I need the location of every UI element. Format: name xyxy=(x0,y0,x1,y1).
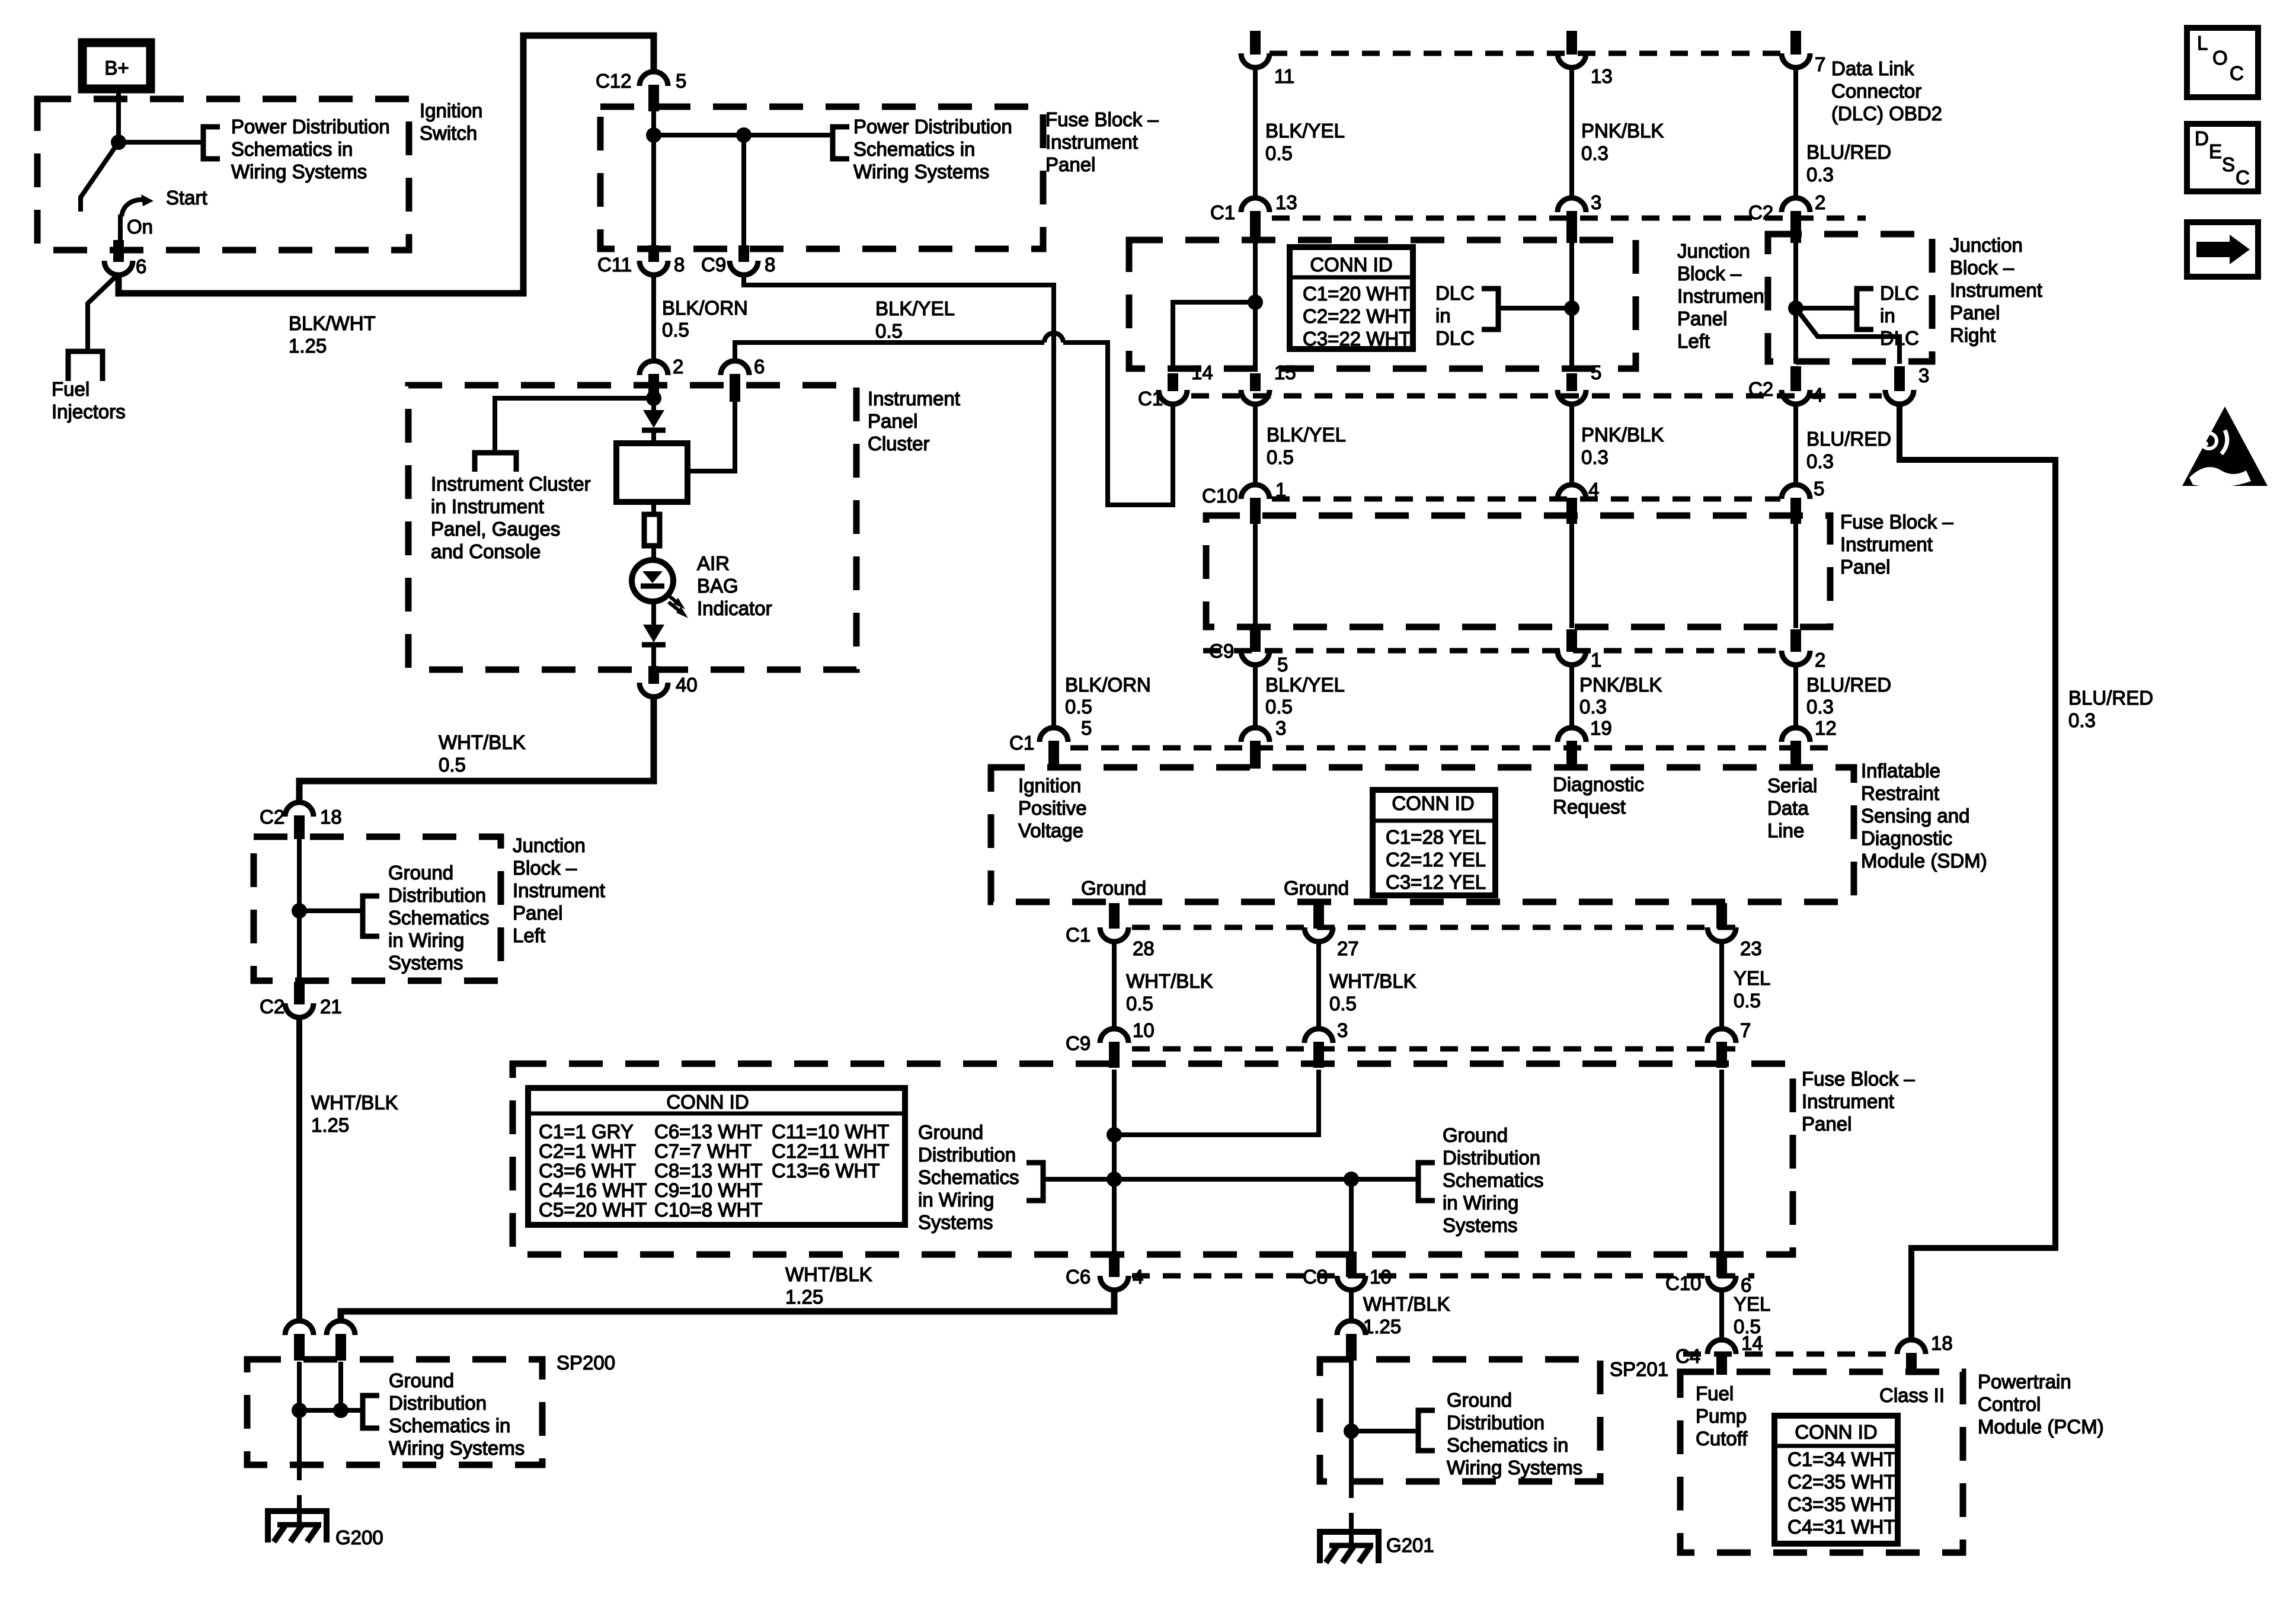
connector C12 pin 5 xyxy=(639,72,668,86)
svg-text:Panel: Panel xyxy=(1840,556,1890,578)
wire PNK/BLK to SDM-19 xyxy=(1569,665,1574,729)
connector pin 2 xyxy=(1782,651,1810,665)
svg-text:Distribution: Distribution xyxy=(389,1392,487,1414)
data link connector DLC pin 11 xyxy=(1250,31,1261,55)
wire PNK/BLK junction block left vertical xyxy=(1569,242,1574,371)
svg-text:7: 7 xyxy=(1815,53,1825,75)
connector C6 pin 4 xyxy=(1100,1276,1128,1290)
svg-text:C1: C1 xyxy=(1009,732,1034,754)
wire B+ to switch xyxy=(116,89,121,142)
svg-text:Block –: Block – xyxy=(1950,257,2014,279)
svg-text:Positive: Positive xyxy=(1018,797,1087,819)
svg-text:BLK/YEL: BLK/YEL xyxy=(1265,120,1345,142)
svg-text:0.5: 0.5 xyxy=(1065,696,1092,718)
svg-text:Junction: Junction xyxy=(1677,240,1750,262)
svg-text:C11=10 WHT: C11=10 WHT xyxy=(772,1121,889,1142)
svg-text:Ground: Ground xyxy=(389,1369,454,1391)
connector pin 7 bottom xyxy=(1707,1029,1736,1043)
node second fuse feed xyxy=(736,127,752,143)
svg-text:13: 13 xyxy=(1591,65,1613,87)
svg-text:BLK/ORN: BLK/ORN xyxy=(662,297,748,319)
svg-text:Schematics: Schematics xyxy=(388,907,490,929)
svg-text:Schematics in: Schematics in xyxy=(389,1414,510,1436)
bracket power distribution fuse block xyxy=(833,127,849,159)
bracket DLC left xyxy=(1482,289,1498,329)
svg-text:WHT/BLK: WHT/BLK xyxy=(1329,970,1416,992)
LOC icon box xyxy=(2187,28,2258,97)
svg-text:C11: C11 xyxy=(597,254,632,276)
wire BLK/YEL to SDM-3 xyxy=(1253,665,1258,729)
svg-text:Cutoff: Cutoff xyxy=(1696,1428,1748,1449)
connector pin 4 fuse block xyxy=(1558,485,1586,499)
svg-text:Fuel: Fuel xyxy=(1696,1382,1734,1404)
svg-text:C2=1 WHT: C2=1 WHT xyxy=(539,1140,636,1162)
svg-text:6: 6 xyxy=(754,356,765,377)
svg-text:Panel: Panel xyxy=(868,410,917,432)
bracket power distribution xyxy=(203,127,220,159)
bracket ground distribution lower xyxy=(363,896,379,936)
connector row dashed line y1565 xyxy=(1132,925,1737,930)
svg-text:0.5: 0.5 xyxy=(1265,696,1293,718)
wire branch to C1-14 xyxy=(1173,302,1255,371)
svg-text:Junction: Junction xyxy=(513,834,586,856)
svg-text:0.5: 0.5 xyxy=(1329,993,1357,1014)
junction block instrument panel left lower box xyxy=(254,837,501,981)
node SP201 xyxy=(1344,1423,1359,1439)
svg-text:in Wiring: in Wiring xyxy=(388,929,464,951)
svg-text:Schematics in: Schematics in xyxy=(1447,1434,1568,1456)
svg-text:Block –: Block – xyxy=(513,857,577,879)
ignition switch box xyxy=(37,99,409,250)
svg-text:C6=13 WHT: C6=13 WHT xyxy=(654,1121,762,1142)
svg-text:Cluster: Cluster xyxy=(868,433,930,455)
fuse block instrument panel middle box xyxy=(1206,516,1830,627)
svg-text:in Instrument: in Instrument xyxy=(431,495,544,517)
wire pin3 joins xyxy=(1114,1070,1319,1135)
svg-text:PNK/BLK: PNK/BLK xyxy=(1581,424,1664,446)
wire BLK/YEL 15 down xyxy=(1253,404,1258,486)
node ground join 1 xyxy=(1107,1127,1122,1142)
svg-text:19: 19 xyxy=(1590,717,1612,739)
svg-text:WHT/BLK: WHT/BLK xyxy=(785,1263,872,1285)
svg-text:Wiring Systems: Wiring Systems xyxy=(853,161,989,183)
svg-text:14: 14 xyxy=(1741,1332,1763,1354)
connector pin 6 ignition switch xyxy=(104,261,133,275)
wire PNK/BLK DLC-13 down xyxy=(1569,68,1574,198)
svg-text:C5=20 WHT: C5=20 WHT xyxy=(539,1199,647,1221)
svg-text:Instrument: Instrument xyxy=(868,388,960,409)
svg-text:C7=7 WHT: C7=7 WHT xyxy=(654,1140,752,1162)
wire SP200 bus xyxy=(299,1408,363,1413)
connector C1 pin 14 xyxy=(1159,390,1187,404)
connector row dashed line y1760 xyxy=(1132,1046,1737,1052)
wire diagonal to pin 3 right xyxy=(1796,308,1900,364)
svg-text:5: 5 xyxy=(1277,654,1288,676)
connector C2 pin 2 junction block right xyxy=(1782,198,1810,212)
wire SP200 left vertical xyxy=(297,1362,302,1465)
wire C8-10 to SP201 xyxy=(1349,1290,1354,1322)
svg-text:0.5: 0.5 xyxy=(439,754,466,776)
wire pin7 to C10-6 xyxy=(1719,1070,1724,1256)
svg-text:Line: Line xyxy=(1767,820,1804,841)
svg-text:Start: Start xyxy=(166,187,207,209)
svg-text:5: 5 xyxy=(1591,361,1601,383)
svg-text:Ground: Ground xyxy=(1081,877,1146,899)
svg-text:0.5: 0.5 xyxy=(1265,142,1293,164)
connector pin 5 junction left xyxy=(1558,390,1586,404)
wire to C8-10 xyxy=(1349,1179,1354,1256)
svg-text:C4=31 WHT: C4=31 WHT xyxy=(1787,1516,1895,1538)
svg-text:Schematics in: Schematics in xyxy=(231,138,353,160)
svg-text:2: 2 xyxy=(673,356,683,377)
svg-text:C2: C2 xyxy=(260,806,284,828)
svg-text:Restraint: Restraint xyxy=(1861,782,1939,804)
svg-text:Module (PCM): Module (PCM) xyxy=(1978,1416,2104,1438)
wire driver box to pin 6 xyxy=(687,401,735,471)
wire SP200 right vertical xyxy=(338,1362,343,1410)
svg-text:DLC: DLC xyxy=(1880,282,1919,304)
fuel injectors component bracket xyxy=(68,351,103,381)
svg-text:C: C xyxy=(2230,62,2244,84)
node ground join 3 xyxy=(1344,1172,1359,1187)
svg-text:0.5: 0.5 xyxy=(1734,990,1761,1012)
svg-text:Ground: Ground xyxy=(918,1121,983,1143)
svg-text:Wiring Systems: Wiring Systems xyxy=(1447,1457,1582,1478)
svg-text:O: O xyxy=(2212,47,2228,69)
connector pin 2 cluster xyxy=(639,361,668,375)
connector pin 15 xyxy=(1241,390,1269,404)
fuse block instrument panel box top xyxy=(600,107,1043,249)
svg-text:BLK/ORN: BLK/ORN xyxy=(1065,674,1151,696)
fuse block instrument panel bottom box xyxy=(513,1064,1793,1254)
svg-text:Power Distribution: Power Distribution xyxy=(853,116,1012,137)
svg-text:C: C xyxy=(2236,167,2250,188)
wire to fuel injectors xyxy=(88,274,119,351)
connector C2 pin 21 xyxy=(285,1003,314,1017)
svg-text:1.25: 1.25 xyxy=(311,1114,349,1136)
node lower junction xyxy=(292,903,307,918)
wire to G201 xyxy=(1349,1481,1354,1498)
connector pin 18 PCM xyxy=(1897,1340,1926,1354)
svg-text:5: 5 xyxy=(676,70,686,92)
connector row dashed line y2285 xyxy=(1683,1352,1895,1357)
svg-text:Module (SDM): Module (SDM) xyxy=(1861,850,1987,872)
svg-text:Diagnostic: Diagnostic xyxy=(1861,827,1952,849)
svg-text:Left: Left xyxy=(513,924,545,946)
wire BLU/RED pin3 to PCM-18 long route xyxy=(1900,404,2055,1341)
ground G200 xyxy=(268,1511,327,1542)
svg-text:Instrument: Instrument xyxy=(1950,279,2042,301)
wire WHT/BLK 1.25 to SP200 xyxy=(296,1017,302,1322)
svg-text:Schematics in: Schematics in xyxy=(853,138,975,160)
svg-text:Connector: Connector xyxy=(1831,80,1921,102)
wire On to pin 6 xyxy=(118,215,123,240)
svg-text:C6: C6 xyxy=(1066,1266,1091,1288)
svg-text:0.3: 0.3 xyxy=(1581,142,1609,164)
wire to ground distribution bracket xyxy=(299,908,363,913)
svg-text:18: 18 xyxy=(320,806,342,828)
svg-text:C2=22 WHT: C2=22 WHT xyxy=(1303,305,1411,327)
data link connector DLC pin 13 xyxy=(1566,31,1577,55)
svg-text:Left: Left xyxy=(1677,330,1710,352)
connector pin 40 cluster xyxy=(639,683,668,697)
svg-text:SP201: SP201 xyxy=(1610,1358,1668,1380)
battery B+ terminal xyxy=(82,43,151,89)
bracket DLC right xyxy=(1857,289,1873,329)
connector pin 1 xyxy=(1558,651,1586,665)
svg-text:BLU/RED: BLU/RED xyxy=(1806,141,1891,163)
svg-text:Ignition: Ignition xyxy=(1018,775,1081,796)
wires through middle fuse block xyxy=(1253,524,1258,628)
svg-text:G201: G201 xyxy=(1386,1534,1434,1556)
start position arc arrow xyxy=(121,200,146,216)
node PNK/BLK dlc xyxy=(1564,300,1579,316)
svg-text:Ground: Ground xyxy=(388,862,453,884)
svg-text:Instrument: Instrument xyxy=(1677,285,1770,307)
svg-text:AIR: AIR xyxy=(697,552,730,574)
svg-text:3: 3 xyxy=(1275,717,1286,739)
svg-text:B+: B+ xyxy=(104,57,129,79)
svg-text:YEL: YEL xyxy=(1734,1293,1770,1315)
svg-text:CONN ID: CONN ID xyxy=(1795,1421,1877,1443)
wire to power distribution bracket xyxy=(119,140,203,145)
svg-text:0.5: 0.5 xyxy=(1267,446,1294,468)
svg-text:Powertrain: Powertrain xyxy=(1978,1371,2071,1393)
svg-text:8: 8 xyxy=(765,254,775,276)
wire to DLC bracket right xyxy=(1796,306,1857,311)
svg-text:6: 6 xyxy=(136,255,146,277)
svg-text:1.25: 1.25 xyxy=(785,1286,823,1308)
svg-text:0.5: 0.5 xyxy=(1126,993,1153,1014)
svg-text:C10: C10 xyxy=(1202,485,1238,507)
svg-text:Data Link: Data Link xyxy=(1831,57,1914,79)
svg-text:in: in xyxy=(1435,305,1451,327)
diode D2 xyxy=(651,600,656,625)
wire BLU/RED 4 down xyxy=(1793,404,1798,486)
wire second fuse drop xyxy=(741,135,746,249)
wire BLU/RED DLC-7 down xyxy=(1793,68,1798,198)
svg-text:BLU/RED: BLU/RED xyxy=(1806,428,1891,450)
svg-text:Diagnostic: Diagnostic xyxy=(1553,773,1644,795)
svg-text:Request: Request xyxy=(1553,796,1626,818)
connector row dashed line y1252 xyxy=(1070,745,1834,751)
svg-text:C10=8 WHT: C10=8 WHT xyxy=(654,1199,762,1221)
svg-text:G200: G200 xyxy=(335,1526,383,1548)
DLC dashed harness line xyxy=(1269,51,1780,56)
bracket ground distribution SP200 xyxy=(363,1396,379,1428)
svg-text:C3=6 WHT: C3=6 WHT xyxy=(539,1160,636,1182)
svg-text:SP200: SP200 xyxy=(557,1352,615,1374)
svg-text:Fuse Block –: Fuse Block – xyxy=(1045,108,1159,130)
svg-text:D: D xyxy=(2195,127,2209,149)
svg-text:Panel: Panel xyxy=(1677,308,1727,329)
svg-text:Data: Data xyxy=(1767,797,1809,819)
svg-text:1.25: 1.25 xyxy=(289,335,327,357)
svg-text:Instrument: Instrument xyxy=(1045,131,1138,153)
wire YEL 23 down xyxy=(1719,942,1724,1030)
svg-text:Distribution: Distribution xyxy=(388,884,486,906)
node ground join 2 xyxy=(1107,1172,1122,1187)
svg-text:C1=28 YEL: C1=28 YEL xyxy=(1386,826,1486,848)
svg-text:C1=34 WHT: C1=34 WHT xyxy=(1787,1448,1895,1470)
resistor cluster xyxy=(651,502,656,514)
svg-text:C1=20 WHT: C1=20 WHT xyxy=(1303,283,1411,305)
svg-text:Distribution: Distribution xyxy=(918,1144,1016,1166)
connector pin 19 SDM xyxy=(1558,728,1586,742)
connector C9 pin 5 xyxy=(1241,651,1269,665)
svg-text:E: E xyxy=(2209,140,2222,162)
CONN ID table SDM xyxy=(1373,790,1495,895)
svg-text:C12: C12 xyxy=(596,70,632,92)
node switch common xyxy=(111,135,126,150)
svg-text:Ground: Ground xyxy=(1443,1124,1508,1146)
arrow icon box xyxy=(2187,222,2258,277)
svg-text:WHT/BLK: WHT/BLK xyxy=(311,1092,398,1113)
svg-text:Fuse Block –: Fuse Block – xyxy=(1840,511,1953,533)
ground bus wire xyxy=(1043,1177,1418,1182)
svg-text:Control: Control xyxy=(1978,1393,2041,1415)
splice SP200 box xyxy=(247,1359,542,1465)
CONN ID table bottom fuse block xyxy=(528,1088,905,1225)
svg-text:Inflatable: Inflatable xyxy=(1861,760,1940,782)
node cluster feed xyxy=(646,391,661,406)
svg-text:8: 8 xyxy=(674,254,685,276)
svg-text:Panel: Panel xyxy=(1045,153,1095,175)
node junction block left xyxy=(1248,295,1263,310)
ground G201 xyxy=(1320,1532,1379,1563)
airbag lamp driver box xyxy=(616,443,687,502)
CONN ID table PCM xyxy=(1774,1416,1898,1544)
switch blade xyxy=(81,142,119,212)
svg-text:21: 21 xyxy=(320,996,342,1017)
svg-text:3: 3 xyxy=(1918,364,1929,386)
svg-text:WHT/BLK: WHT/BLK xyxy=(1363,1293,1450,1315)
svg-text:Systems: Systems xyxy=(918,1211,993,1233)
svg-text:Switch: Switch xyxy=(420,122,477,144)
diode D1 xyxy=(651,398,656,410)
airbag warning triangle xyxy=(2182,407,2268,486)
node SP200 left xyxy=(292,1403,307,1418)
DESC icon box xyxy=(2187,124,2258,191)
svg-text:Right: Right xyxy=(1950,324,1996,346)
svg-text:C12=11 WHT: C12=11 WHT xyxy=(772,1140,889,1162)
svg-text:40: 40 xyxy=(676,674,698,696)
svg-text:27: 27 xyxy=(1337,937,1359,959)
connector C10 pin 1 fuse block xyxy=(1241,485,1269,499)
connector C10 pin 6 xyxy=(1707,1276,1736,1290)
connector C11 pin 8 xyxy=(639,261,668,275)
connector C4 pin 14 PCM xyxy=(1707,1340,1736,1354)
svg-text:C9: C9 xyxy=(701,254,726,276)
svg-text:DLC: DLC xyxy=(1435,282,1475,304)
svg-text:Ignition: Ignition xyxy=(420,100,482,121)
svg-text:12: 12 xyxy=(1815,717,1837,739)
svg-text:Panel, Gauges: Panel, Gauges xyxy=(431,518,560,540)
connector C1 pin 28 xyxy=(1100,927,1128,942)
svg-text:BLU/RED: BLU/RED xyxy=(1806,674,1891,696)
bracket ground distribution SP201 xyxy=(1418,1410,1435,1451)
svg-text:C3=12 YEL: C3=12 YEL xyxy=(1386,871,1486,893)
junction block instrument panel right box xyxy=(1768,234,1932,361)
wire BLK/YEL C9-8 to SDM C1-5 xyxy=(744,274,1054,729)
svg-text:0.5: 0.5 xyxy=(662,319,689,341)
svg-text:Power Distribution: Power Distribution xyxy=(231,116,390,137)
svg-text:0.5: 0.5 xyxy=(875,320,903,342)
svg-text:5: 5 xyxy=(1081,717,1092,739)
powertrain control module box xyxy=(1680,1372,1963,1553)
connector C1 pin 5 SDM xyxy=(1040,728,1068,742)
svg-text:0.3: 0.3 xyxy=(1579,696,1607,718)
svg-text:C3=35 WHT: C3=35 WHT xyxy=(1787,1493,1895,1515)
svg-text:11: 11 xyxy=(1274,65,1294,87)
svg-text:Indicator: Indicator xyxy=(697,597,772,619)
wire WHT/BLK 27 down xyxy=(1316,942,1321,1030)
svg-text:Serial: Serial xyxy=(1767,775,1817,796)
bracket ground distribution left xyxy=(1027,1163,1043,1201)
wire BLK/WHT ignition feed xyxy=(119,36,654,293)
wire junction block left vertical xyxy=(1253,242,1258,371)
LED emission arrows xyxy=(666,593,678,603)
svg-text:3: 3 xyxy=(1591,191,1601,213)
connector row dashed line y2153 xyxy=(1132,1273,1754,1279)
node junction block right xyxy=(1788,300,1803,316)
connector pin 3 right xyxy=(1885,390,1914,404)
connector row dashed line y658 xyxy=(1191,393,1882,399)
svg-text:YEL: YEL xyxy=(1734,967,1770,989)
node fuse feed xyxy=(646,127,661,143)
svg-text:0.3: 0.3 xyxy=(1581,446,1609,468)
svg-text:C1: C1 xyxy=(1066,924,1091,946)
svg-text:Panel: Panel xyxy=(1950,302,2000,324)
wire hop over BLK/ORN xyxy=(1044,333,1063,343)
svg-text:Fuel: Fuel xyxy=(52,378,89,400)
svg-text:C2=12 YEL: C2=12 YEL xyxy=(1386,849,1486,870)
svg-text:18: 18 xyxy=(1931,1332,1953,1354)
svg-text:C8=13 WHT: C8=13 WHT xyxy=(654,1160,762,1182)
svg-text:L: L xyxy=(2197,32,2208,54)
svg-text:BLK/WHT: BLK/WHT xyxy=(289,312,376,334)
svg-text:CONN ID: CONN ID xyxy=(1310,254,1392,276)
svg-text:CONN ID: CONN ID xyxy=(1392,792,1474,814)
svg-text:Instrument: Instrument xyxy=(513,879,605,901)
wire inside fuse block left xyxy=(651,111,656,249)
CONN ID table junction block left xyxy=(1290,247,1413,349)
svg-text:Panel: Panel xyxy=(1802,1113,1851,1135)
svg-text:0.3: 0.3 xyxy=(1806,450,1834,472)
svg-text:0.3: 0.3 xyxy=(1806,164,1834,185)
svg-text:in: in xyxy=(1880,305,1895,327)
svg-text:(DLC) OBD2: (DLC) OBD2 xyxy=(1831,103,1942,124)
connector pin 27 xyxy=(1304,927,1333,942)
wire WHT/BLK 28 down xyxy=(1112,942,1117,1030)
wire BLK/YEL DLC-11 down xyxy=(1253,68,1258,198)
inflatable restraint SDM box xyxy=(991,767,1854,902)
wire junction block right vertical xyxy=(1793,242,1798,364)
connector pin 6 cluster xyxy=(721,361,749,375)
svg-text:BLU/RED: BLU/RED xyxy=(2068,687,2153,709)
svg-text:C4=16 WHT: C4=16 WHT xyxy=(539,1179,647,1201)
wire fuse to bracket xyxy=(654,133,833,137)
svg-text:Pump: Pump xyxy=(1696,1405,1747,1427)
svg-text:in Wiring: in Wiring xyxy=(1443,1192,1518,1214)
svg-text:Instrument: Instrument xyxy=(1840,533,1933,555)
svg-text:3: 3 xyxy=(1337,1019,1348,1041)
bracket ground distribution right xyxy=(1418,1163,1435,1201)
wire bracket to PNK/BLK xyxy=(1498,306,1572,311)
wire YEL C10-6 to PCM C4-14 xyxy=(1719,1290,1724,1341)
connector row dashed line y358 xyxy=(1272,216,1866,221)
svg-text:Wiring Systems: Wiring Systems xyxy=(389,1437,525,1459)
